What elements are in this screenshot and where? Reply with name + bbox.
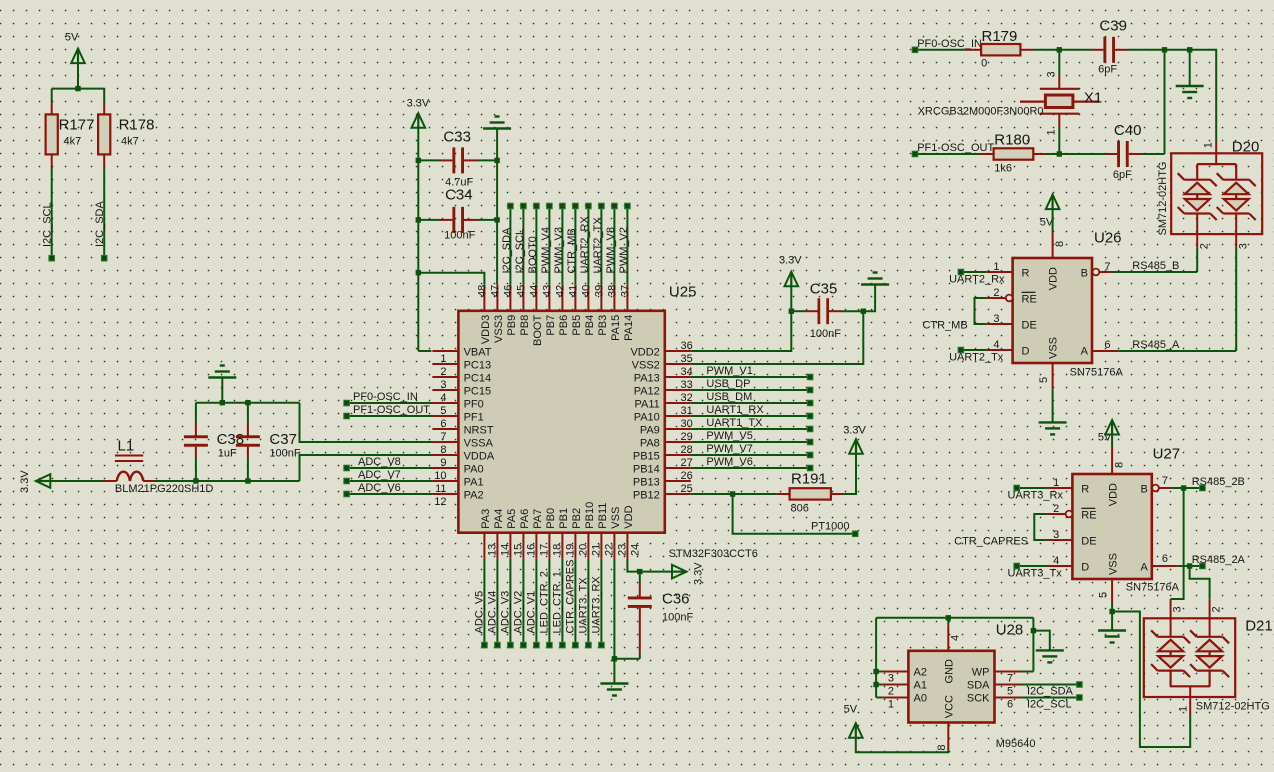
U28 pin names (914, 659, 991, 718)
svg-text:7: 7 (1162, 475, 1168, 487)
U25 pin 35 (VSS2) right stub (632, 353, 693, 372)
U25 pin 31 (PA10) right stub (634, 405, 693, 424)
power 5V (above U27) (1098, 420, 1119, 448)
wire net PF1-OSC_OUT (to R180) (915, 142, 994, 154)
svg-text:D21: D21 (1245, 618, 1273, 635)
svg-text:A2: A2 (914, 667, 927, 679)
U25 pin 48 (VDD3) top stub (476, 285, 492, 344)
svg-text:RS485_B: RS485_B (1132, 260, 1179, 272)
U25 pin 17 (PA7) bottom stub (532, 509, 551, 559)
svg-text:PA1: PA1 (464, 477, 484, 489)
svg-text:7: 7 (1007, 673, 1013, 685)
wire VCC to 5V (856, 737, 949, 752)
terminal ADC_V4 (495, 642, 501, 648)
svg-text:I2C_SCL: I2C_SCL (514, 229, 526, 274)
terminal UART3_Tx (1014, 563, 1020, 569)
svg-text:R: R (1022, 268, 1030, 280)
terminal PWM_V7 (807, 452, 813, 458)
U26 pin 2 (RE) stub with bubble (987, 287, 1013, 301)
svg-text:3.3V: 3.3V (843, 425, 866, 437)
junction C37 bottom (245, 478, 250, 483)
svg-text:VSSA: VSSA (464, 438, 494, 450)
svg-text:39: 39 (593, 285, 605, 297)
svg-text:100nF: 100nF (662, 612, 693, 624)
wire net BOOT0 (U25 top) (527, 206, 539, 285)
svg-text:ADC_V4: ADC_V4 (486, 591, 498, 634)
U28 pin 6 (SCK) stub (995, 698, 1021, 711)
svg-text:R180: R180 (994, 132, 1030, 149)
U26 pin 3 (DE) stub (987, 313, 1013, 325)
resistor R191 806 (777, 471, 844, 515)
ground (below U26) (1039, 422, 1067, 434)
U25 pin 4 (PF0) left stub (432, 392, 483, 411)
wire net RS485_B to D20 pin2 (1112, 247, 1197, 272)
terminal RS485_2A (1200, 563, 1206, 569)
D20 pin 2 stub (1197, 214, 1210, 250)
wire net UART2_Rx (949, 272, 1005, 286)
svg-text:806: 806 (791, 503, 809, 515)
wire net PWM_V8 (U25 top) (605, 206, 617, 285)
wire net UART2_RX (U25 top) (579, 206, 591, 285)
svg-text:RE: RE (1081, 510, 1096, 522)
wire net PF0-OSC_IN (to R179) (915, 38, 982, 50)
junction A1 tie (873, 682, 878, 687)
wire VSS pin23 to ground node (614, 559, 639, 684)
wire net PWM_V2 (U25 top) (618, 206, 630, 285)
svg-text:12: 12 (434, 496, 446, 508)
terminal PWM_V4 (547, 203, 553, 209)
U27 pin 4 (D) stub (1046, 555, 1072, 567)
D21 pin 1 stub (1178, 686, 1191, 716)
capacitor C34 100nF (418, 187, 497, 242)
svg-text:PA10: PA10 (634, 412, 660, 424)
U27 pin 1 (R) stub (1046, 477, 1072, 489)
svg-text:2: 2 (1053, 503, 1059, 515)
svg-text:SN75176A: SN75176A (1126, 582, 1180, 594)
wire VSS2 to ground (691, 285, 875, 364)
terminal ADC_V2 (521, 642, 527, 648)
U28 pin 2 (A1) stub (882, 685, 908, 698)
wire VSS3 pin47 to ground (496, 129, 498, 285)
terminal ADC_V1 (534, 642, 540, 648)
svg-text:VDDA: VDDA (464, 451, 495, 463)
D20 pin 3 stub (1236, 214, 1249, 250)
terminal I2C_SDA (508, 203, 514, 209)
U25 pin 29 (PA8) right stub (640, 431, 693, 450)
wire U27 VSS to D21 pin1 (1112, 612, 1190, 748)
svg-text:C37: C37 (269, 431, 297, 448)
svg-text:UART2_Tx: UART2_Tx (949, 352, 1004, 364)
terminal UART2_Rx (958, 269, 964, 275)
wire to U25 VDDA pin8 (300, 455, 433, 481)
wire net ADC_V4 (U25 bottom) (486, 559, 498, 645)
svg-text:100nF: 100nF (269, 448, 300, 460)
U25 pin 43 (PB7) top stub (541, 285, 557, 336)
U25 pin 39 (PB3) top stub (593, 285, 609, 336)
wire net CTR_CAPRES (U25 bottom) (564, 559, 576, 645)
svg-text:PC13: PC13 (464, 360, 492, 372)
wire VDD2 to 3.3V (691, 311, 792, 351)
D21 TVS pair right (1190, 630, 1229, 677)
svg-text:24: 24 (629, 544, 641, 556)
svg-text:PA8: PA8 (640, 438, 660, 450)
junction RS485_2B (1181, 485, 1186, 490)
wire R191 to 3.3V (844, 457, 856, 494)
svg-text:PA12: PA12 (634, 386, 660, 398)
U25 pin 10 (PA1) left stub (432, 470, 483, 489)
terminal PF0-OSC_IN (right) (912, 47, 918, 53)
svg-text:PA7: PA7 (532, 509, 544, 529)
terminal UART2_RX (586, 203, 592, 209)
U25 pin 44 (BOOT) top stub (528, 285, 544, 346)
terminal BOOT0 (534, 203, 540, 209)
junction C37 top (245, 400, 250, 405)
svg-text:5: 5 (1098, 592, 1110, 598)
wire net PF0-OSC_IN (U25 pin4) (347, 391, 433, 403)
svg-text:SM712-02HTG: SM712-02HTG (1157, 162, 1169, 236)
svg-text:UART1_RX: UART1_RX (706, 404, 764, 416)
wire net PF1-OSC_OUT (U25 pin5) (347, 404, 433, 416)
svg-text:3.3V: 3.3V (693, 562, 705, 585)
ground (above C38/C37) (208, 366, 236, 403)
svg-text:PA15: PA15 (610, 315, 622, 341)
svg-text:PB13: PB13 (633, 477, 660, 489)
svg-text:6pF: 6pF (1098, 64, 1117, 76)
svg-text:VSS: VSS (1107, 553, 1119, 575)
svg-text:VSS: VSS (1048, 337, 1060, 359)
svg-text:VSS: VSS (610, 507, 622, 529)
terminal PF1-OSC_OUT (344, 413, 350, 419)
svg-text:8: 8 (440, 444, 446, 456)
svg-text:PWM_V4: PWM_V4 (540, 227, 552, 273)
U25 pin 2 (PC14) left stub (432, 366, 491, 385)
svg-text:USB_DM: USB_DM (706, 391, 752, 403)
U25 pin 15 (PA5) bottom stub (506, 509, 525, 559)
svg-text:2: 2 (888, 686, 894, 698)
svg-text:PT1000: PT1000 (811, 521, 850, 533)
U25 pin 45 (PB8) top stub (515, 285, 531, 336)
svg-text:PB5: PB5 (571, 315, 583, 336)
svg-text:38: 38 (606, 285, 618, 297)
svg-text:UART2_TX: UART2_TX (592, 217, 604, 274)
svg-text:LED_CTR_1: LED_CTR_1 (551, 571, 563, 633)
wire net I2C_SCL (1021, 698, 1080, 711)
U25 pin 5 (PF1) left stub (432, 405, 483, 424)
svg-text:R179: R179 (982, 28, 1018, 45)
svg-text:UART2_RX: UART2_RX (579, 216, 591, 274)
wire R180 to crystal bottom node (1046, 153, 1059, 155)
svg-text:3: 3 (993, 313, 999, 325)
ground (top right) (1176, 86, 1204, 98)
wire net RS485_2B (1172, 476, 1245, 488)
svg-text:1k6: 1k6 (994, 163, 1012, 175)
wire net UART1_RX (U25 right) (691, 404, 810, 416)
svg-text:5V: 5V (65, 32, 79, 44)
svg-text:PC14: PC14 (464, 373, 492, 385)
wire net PWM_V6 (U25 right) (691, 456, 810, 468)
svg-text:PA11: PA11 (635, 399, 660, 411)
wire U28 top rail (GND net) (876, 617, 1033, 619)
svg-text:PB6: PB6 (558, 315, 570, 336)
wire net I2C_SDA (1021, 685, 1080, 698)
U25 pin 20 (PB2) bottom stub (571, 508, 590, 559)
RS485 transceiver U27 SN75176A body (1072, 446, 1180, 594)
U25 pin 8 (VDDA) left stub (432, 444, 494, 463)
wire to ground (right of U28) (1033, 631, 1049, 651)
terminal ADC_V6 (344, 491, 350, 497)
U25 pin number 12 (no stub) (434, 496, 446, 508)
U26 pin 4 (D) stub (987, 339, 1013, 351)
U25 pin 21 (PB10) bottom stub (584, 502, 603, 559)
terminal UART2_TX (599, 203, 605, 209)
svg-text:A: A (1140, 562, 1148, 574)
svg-text:VDD2: VDD2 (630, 347, 659, 359)
U28 pin 7 (WP) stub (995, 672, 1021, 685)
U26 pin names (1022, 267, 1089, 359)
U26 pin 7 (B) stub with bubble (1093, 261, 1113, 275)
terminal I2C_SDA (101, 255, 107, 261)
wire net PWM_V4 (U25 top) (540, 206, 552, 285)
svg-text:L1: L1 (118, 438, 135, 455)
U26 pin 8 (VDD) stub (1053, 232, 1066, 258)
U25 pin 26 (PB13) right stub (633, 470, 693, 489)
svg-text:3.3V: 3.3V (779, 255, 802, 267)
svg-text:4: 4 (993, 339, 999, 351)
junction C34 left (416, 217, 421, 222)
RS485 transceiver U26 SN75176A body (1013, 230, 1124, 379)
svg-text:BOOT: BOOT (532, 315, 544, 346)
wire VSS node (1111, 604, 1113, 631)
wire PB12 pin25 to R191 (691, 493, 777, 495)
svg-text:PA13: PA13 (634, 373, 660, 385)
svg-text:ADC_V8: ADC_V8 (358, 456, 401, 468)
svg-text:UART2_Rx: UART2_Rx (949, 274, 1005, 286)
terminal UART3_RX (599, 642, 605, 648)
svg-text:2: 2 (993, 287, 999, 299)
U26 pin 1 (R) stub (987, 261, 1013, 273)
junction C35 left (789, 309, 794, 314)
svg-text:PF1-OSC_OUT: PF1-OSC_OUT (917, 142, 994, 154)
svg-text:PB1: PB1 (558, 508, 570, 529)
terminal ADC_V5 (482, 642, 488, 648)
svg-text:PF1: PF1 (464, 412, 484, 424)
power 3.3V (above C33) (407, 98, 430, 352)
terminal CTR_MB (573, 203, 579, 209)
svg-text:6: 6 (1104, 339, 1110, 351)
svg-text:DE: DE (1022, 320, 1037, 332)
svg-text:PB7: PB7 (545, 315, 557, 336)
svg-text:C35: C35 (810, 281, 838, 298)
U27 pin 3 (DE) stub (1046, 529, 1072, 541)
terminal USB_DP (807, 387, 813, 393)
wire C40 riser to top rail (1164, 50, 1166, 154)
D21 pin 3 stub (1171, 599, 1184, 637)
resistor R179 0 (966, 28, 1034, 70)
svg-text:VBAT: VBAT (464, 347, 492, 359)
terminal PWM_V1 (807, 374, 813, 380)
svg-text:45: 45 (515, 285, 527, 297)
svg-text:41: 41 (567, 285, 579, 297)
junction GND pin rail (946, 615, 951, 620)
svg-text:5V: 5V (844, 704, 858, 716)
junction 3.3V rail at VBAT branch (416, 270, 421, 275)
svg-text:X1: X1 (1084, 90, 1102, 107)
U25 pin 34 (PA13) right stub (634, 366, 693, 385)
power 3.3V (above C35) (779, 255, 802, 312)
junction PB12 node (730, 491, 735, 496)
wire PB12 to PT1000 (733, 494, 856, 534)
junction WP/ground branch (1031, 628, 1036, 633)
svg-text:PC15: PC15 (464, 386, 492, 398)
svg-text:I2C_SDA: I2C_SDA (94, 200, 106, 247)
svg-text:100nF: 100nF (810, 328, 841, 340)
terminal PWM_V5 (807, 439, 813, 445)
wire to ground (top right) (1189, 50, 1191, 86)
svg-text:XRCGB32M000F3N00R0: XRCGB32M000F3N00R0 (918, 106, 1044, 118)
U25 pin 25 (PB12) right stub (633, 483, 693, 502)
U27 pin 6 (A) stub (1152, 553, 1178, 566)
svg-text:3: 3 (1172, 606, 1184, 612)
svg-text:DE: DE (1081, 536, 1096, 548)
U28 pin 8 (VCC) stub (936, 723, 948, 751)
svg-text:I2C_SDA: I2C_SDA (501, 227, 513, 274)
svg-text:3: 3 (1053, 529, 1059, 541)
ground (below U27) (1098, 631, 1126, 643)
svg-text:I2C_SCL: I2C_SCL (1027, 699, 1072, 711)
svg-text:1: 1 (1178, 706, 1190, 712)
svg-text:CTR_MB: CTR_MB (922, 319, 967, 331)
terminal UART1_TX (807, 426, 813, 432)
svg-text:5: 5 (1038, 377, 1050, 383)
terminal PF0-OSC_IN (344, 400, 350, 406)
svg-text:UART3_TX: UART3_TX (577, 577, 589, 634)
capacitor C37 100nF (236, 403, 301, 481)
U25 pin 40 (PB4) top stub (580, 285, 596, 336)
junction ground branch (top rail) (1187, 47, 1192, 52)
junction C34 right (494, 217, 499, 222)
svg-text:3: 3 (440, 379, 446, 391)
wire RE-DE loop / net CTR_CAPRES (954, 514, 1046, 547)
svg-text:PWM_V2: PWM_V2 (618, 227, 630, 273)
wire net ADC_V5 (U25 bottom) (473, 559, 485, 645)
svg-text:PF0-OSC_IN: PF0-OSC_IN (917, 38, 982, 50)
wire WP to rail (1021, 618, 1034, 672)
power 3.3V (above R191) (843, 425, 866, 458)
svg-text:D20: D20 (1232, 139, 1260, 156)
wire net PWM_V1 (U25 right) (691, 365, 810, 377)
svg-text:BOOT0: BOOT0 (527, 236, 539, 273)
svg-text:UART3_RX: UART3_RX (590, 576, 602, 634)
wire VSS to ground (1052, 390, 1054, 423)
resistor R177 (46, 103, 95, 167)
svg-text:BLM21PG220SH1D: BLM21PG220SH1D (115, 483, 213, 495)
svg-text:A: A (1081, 346, 1089, 358)
junction C33 right (494, 158, 499, 163)
capacitor C36 100nF (628, 572, 694, 659)
ground (right of C35) (861, 273, 889, 285)
svg-text:2: 2 (440, 366, 446, 378)
power 3.3V (right arrow at pin24) (672, 562, 705, 585)
terminal PWM_V8 (612, 203, 618, 209)
wire net LED_CTR_2 (U25 bottom) (538, 559, 550, 645)
svg-text:SN75176A: SN75176A (1070, 367, 1124, 379)
U25 pin VBAT (VBAT) left stub (432, 347, 491, 359)
svg-text:1: 1 (1046, 129, 1058, 135)
U25 pin 32 (PA11) right stub (635, 392, 693, 411)
U25 pin 22 (PB11) bottom stub (597, 503, 616, 559)
svg-text:R177: R177 (59, 117, 95, 134)
wire net RS485_A to D20 pin3 (1118, 247, 1236, 351)
svg-text:ADC_V3: ADC_V3 (499, 591, 511, 634)
wire net I2C_SDA (U25 top) (501, 206, 513, 285)
junction C38 bottom (193, 478, 198, 483)
U25 pin 7 (VSSA) left stub (432, 431, 493, 450)
U25 pin 23 (VSS) bottom stub (610, 507, 629, 559)
svg-text:4: 4 (1053, 555, 1059, 567)
svg-text:I2C_SCL: I2C_SCL (42, 202, 54, 247)
svg-text:VDD: VDD (1048, 267, 1060, 290)
svg-text:PB15: PB15 (633, 451, 660, 463)
wire net CTR_MB (U25 top) (566, 206, 578, 285)
svg-text:6: 6 (440, 418, 446, 430)
wire L1 to VDDA node (156, 480, 300, 482)
svg-text:R178: R178 (119, 117, 155, 134)
svg-text:SM712-02HTG: SM712-02HTG (1196, 701, 1270, 713)
svg-text:PA6: PA6 (519, 509, 531, 529)
svg-text:ADC_V1: ADC_V1 (525, 591, 537, 634)
wire crystal pin1 (1046, 114, 1060, 154)
svg-text:C39: C39 (1099, 18, 1127, 35)
U25 pin 19 (PB1) bottom stub (558, 508, 577, 559)
TVS diode D20 SM712-02HTG body (1157, 139, 1262, 236)
U25 pin 14 (PA4) bottom stub (493, 509, 512, 559)
svg-text:WP: WP (972, 667, 990, 679)
svg-text:CTR_CAPRES: CTR_CAPRES (564, 560, 576, 634)
D20 TVS pair right (1217, 173, 1256, 220)
terminal I2C_SDA (right) (1077, 682, 1083, 688)
svg-text:5: 5 (440, 405, 446, 417)
svg-text:M95640: M95640 (996, 738, 1036, 750)
U25 pin 41 (PB5) top stub (567, 285, 583, 336)
ground (below U25) (600, 684, 628, 696)
svg-text:6pF: 6pF (1113, 169, 1132, 181)
svg-text:ADC_V5: ADC_V5 (473, 591, 485, 634)
svg-text:26: 26 (681, 470, 693, 482)
wire net ADC_V6 (U25 left) (347, 482, 433, 494)
terminal ADC_V3 (508, 642, 514, 648)
svg-text:C33: C33 (443, 129, 471, 146)
U28 pin 4 (GND) stub (948, 618, 961, 651)
svg-text:U28: U28 (996, 622, 1024, 639)
U25 pin 36 (VDD2) right stub (630, 340, 692, 359)
wire net UART3_Rx (1008, 488, 1064, 502)
U27 pin 2 (RE) stub with bubble (1046, 503, 1072, 517)
svg-text:PA9: PA9 (640, 425, 660, 437)
svg-text:PB8: PB8 (519, 315, 531, 336)
svg-text:46: 46 (502, 285, 514, 297)
svg-text:U26: U26 (1094, 230, 1122, 247)
terminal ADC_V7 (344, 478, 350, 484)
wire net UART3_RX (U25 bottom) (590, 559, 602, 645)
terminal ADC_V8 (344, 465, 350, 471)
U25 pin 1 (PC13) left stub (432, 353, 491, 372)
svg-text:4: 4 (440, 392, 446, 404)
svg-text:42: 42 (554, 285, 566, 297)
U25 pin 11 (PA2) left stub (432, 483, 483, 502)
svg-text:2: 2 (1211, 606, 1223, 612)
junction 5V rail (75, 86, 80, 91)
svg-text:VSS3: VSS3 (493, 315, 505, 343)
